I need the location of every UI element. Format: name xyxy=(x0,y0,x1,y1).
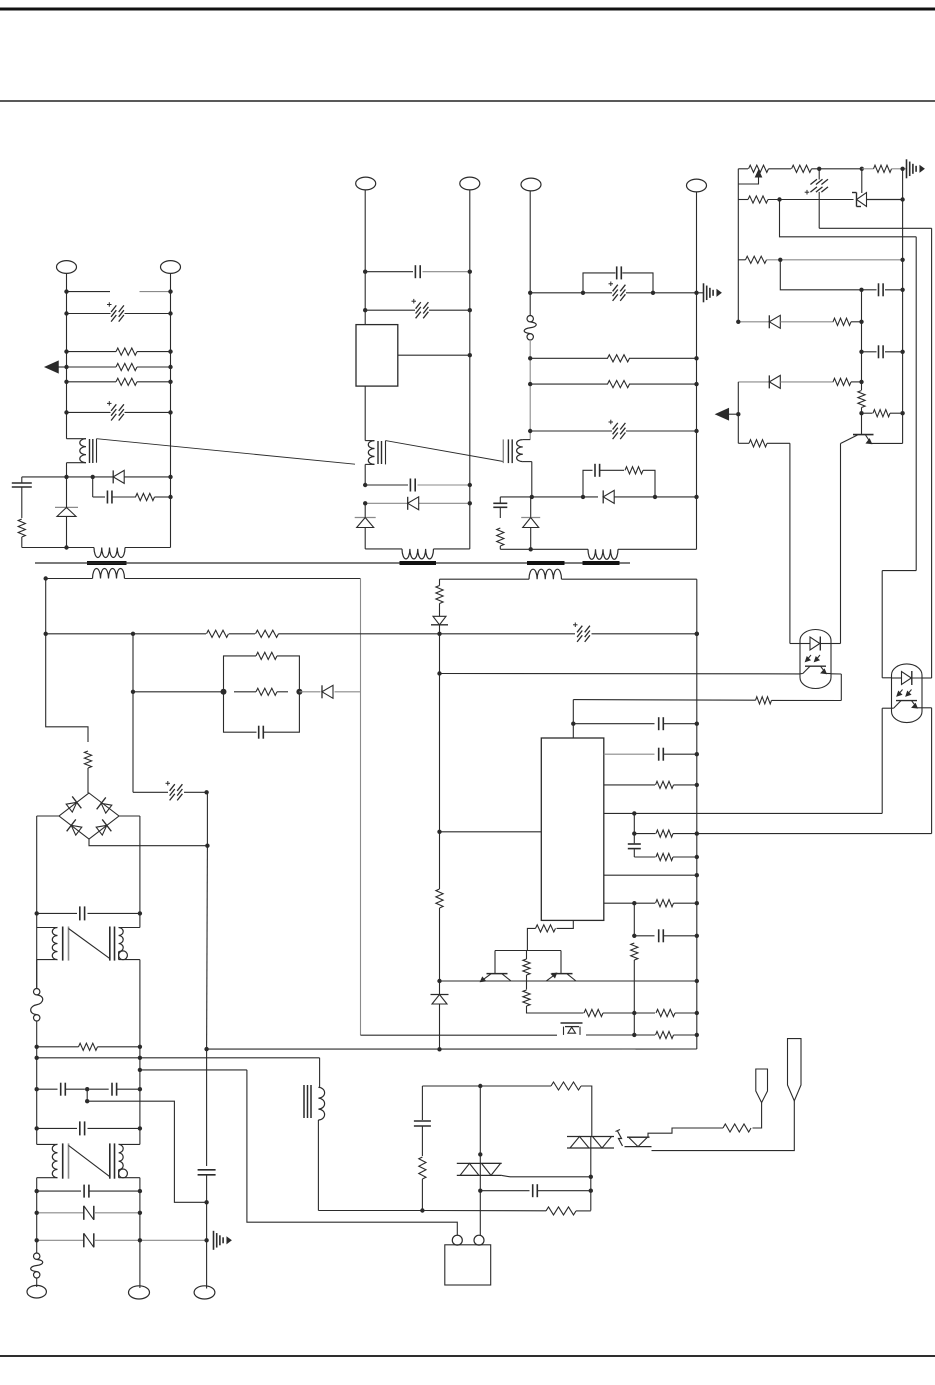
wire left vertical B xyxy=(132,634,134,692)
surge arrester SG1 xyxy=(563,1027,565,1035)
wire opto2 emitter xyxy=(882,707,894,709)
core coupling line T2 xyxy=(386,441,504,462)
capacitor C8 (electrolytic) xyxy=(530,292,612,294)
wire opto1 emitter corner xyxy=(840,674,842,701)
ground (mains) xyxy=(213,1231,215,1250)
capacitor C21 xyxy=(90,1088,109,1090)
wire block1 bottom node xyxy=(22,476,113,478)
resistor R26 xyxy=(604,784,655,786)
IC U1 (regulator box) xyxy=(356,325,398,387)
wire to bridge xyxy=(87,768,89,793)
wire DC bus xyxy=(206,792,208,845)
IC U4 (control IC) xyxy=(541,738,604,920)
resistor R3 xyxy=(67,381,117,383)
diode D7 xyxy=(738,321,769,323)
transformer T4 core bar xyxy=(527,561,565,565)
arrow to sheet (left) xyxy=(45,361,58,373)
capacitor C15 xyxy=(861,322,863,352)
arrow to sheet (right) xyxy=(716,409,729,420)
parallel R/C group node xyxy=(133,691,224,693)
resistor R30 (vertical) xyxy=(631,943,638,960)
capacitor C14 xyxy=(862,289,877,291)
triac TR1 xyxy=(457,1162,502,1164)
capacitor C13 (electrolytic horizontal) xyxy=(818,169,820,180)
diode D3 xyxy=(365,502,408,504)
wire block2 left rail xyxy=(364,272,366,325)
resistor R39 xyxy=(480,1085,551,1087)
resistor R31 (vertical) xyxy=(436,586,443,604)
resistor R13 xyxy=(738,259,745,261)
wire bus to DC bus xyxy=(207,1048,697,1050)
wire to opto2 anode xyxy=(881,571,883,678)
wire TR1 through xyxy=(479,1163,481,1190)
wire opto2 collector xyxy=(917,707,932,709)
trimmer resistor VR1 xyxy=(738,168,748,170)
common-mode choke T6 xyxy=(37,1143,58,1145)
wire U4 left pin xyxy=(440,831,542,833)
wire block2 right rail xyxy=(469,272,471,504)
resistor R27 xyxy=(633,813,635,833)
wire divider vertical xyxy=(633,960,635,1035)
transformer T3 core bar xyxy=(583,561,620,565)
transformer T3 bottom winding xyxy=(588,549,618,559)
jumper J1 (broken rung) xyxy=(67,291,111,293)
wire block4 right rail xyxy=(902,169,904,444)
wire U4 bottom pin xyxy=(557,920,574,928)
wire block4 left rail upper xyxy=(737,169,739,322)
fuse F1 (thermal) xyxy=(527,316,533,322)
wire mains left rail xyxy=(36,816,38,989)
wire aux primary bottom xyxy=(317,1120,319,1211)
module pin 2 xyxy=(474,1235,484,1245)
triac TR2 xyxy=(567,1136,614,1138)
wire driver rail xyxy=(495,950,561,952)
wire block1 bottom rail xyxy=(22,547,94,549)
transformer T1 bottom winding xyxy=(94,548,125,558)
wire left branch lower xyxy=(21,537,23,548)
diode D11 (vertical) xyxy=(439,981,441,995)
terminal L xyxy=(36,1278,38,1287)
capacitor C26 (X-cap) xyxy=(198,1169,216,1171)
module pin 1 xyxy=(452,1235,462,1245)
bridge diode bottom-right xyxy=(95,819,112,837)
wire block2 rail below U1 xyxy=(364,386,366,441)
resistor R9 (vertical) xyxy=(497,528,504,546)
ground (block3) xyxy=(697,292,704,294)
diode D6 (vertical) xyxy=(530,497,532,518)
transformer T3 primary winding xyxy=(523,439,530,441)
terminal N xyxy=(139,1240,141,1288)
wire line node xyxy=(37,1057,320,1059)
wire block3 mid node xyxy=(500,496,598,498)
wire feedback A xyxy=(780,200,917,237)
wire R9 to bottom xyxy=(499,546,501,549)
resistor R6 xyxy=(530,357,608,359)
wire TR2 vertical xyxy=(590,1137,592,1211)
diode D5 xyxy=(602,490,604,503)
transformer T2 core xyxy=(377,441,379,464)
resistor R21 (vertical) xyxy=(84,751,91,768)
capacitor C22 xyxy=(37,1127,77,1129)
terminal CN3-1 xyxy=(521,178,541,191)
wire U1 output xyxy=(398,354,470,356)
wire gate net vertical xyxy=(479,1086,481,1163)
wire block1 right rail xyxy=(170,292,172,497)
capacitor C23 xyxy=(37,1190,81,1192)
resistor R18 xyxy=(738,442,749,444)
resistor R16 (vertical) xyxy=(861,352,863,390)
bridge diode bottom-left xyxy=(67,819,84,837)
capacitor C16 (electrolytic) xyxy=(577,626,582,633)
wire block2 bottom xyxy=(365,548,402,550)
fuse F3 (thermal) xyxy=(34,1253,40,1259)
resistor R24 xyxy=(37,1046,79,1048)
optocoupler U2 light arrows xyxy=(806,655,811,661)
resistor R28 xyxy=(634,856,655,858)
resistor R14 xyxy=(833,318,851,325)
capacitor C12 (to ground) xyxy=(499,497,501,503)
terminal CN2-2 xyxy=(460,177,480,190)
wire mid vertical (snubber net) xyxy=(360,579,362,1036)
wire to opto1 anode xyxy=(789,443,791,643)
capacitor C24 (feedthrough) xyxy=(37,1212,84,1214)
diode D4 (vertical) xyxy=(364,503,366,517)
capacitor C17 (bottom of group) xyxy=(224,692,257,732)
resistor R40 (vertical) xyxy=(419,1157,426,1179)
wire TR1 lower xyxy=(479,1191,481,1236)
wire block4 node d xyxy=(861,290,863,322)
resistor R15 xyxy=(833,378,851,385)
fuse F2 (thermal) xyxy=(34,989,40,995)
ground (block4) xyxy=(906,159,908,178)
diode D8 xyxy=(738,381,769,383)
terminal CN1-1 xyxy=(57,261,77,274)
wire mains right rail xyxy=(139,816,141,928)
optocoupler U3 body xyxy=(892,664,923,723)
resistor R25 xyxy=(572,699,574,701)
wire opto1 collector line xyxy=(440,673,801,675)
resistor R36 xyxy=(584,1009,603,1016)
wire driver emitter line xyxy=(440,980,697,982)
transistor Q1 xyxy=(861,413,863,434)
resistor R32 (vertical) xyxy=(439,832,441,889)
wire bridge right corner xyxy=(119,815,140,817)
wire mains rails 3 xyxy=(139,1089,141,1144)
resistor R22 (top of group) xyxy=(224,656,257,692)
wire snubber top rail 2 xyxy=(586,1034,634,1036)
transformer T2 bottom winding xyxy=(402,549,434,559)
capacitor C20 xyxy=(37,1088,58,1090)
wire bridge bottom xyxy=(89,839,207,846)
header divider rule xyxy=(0,100,935,102)
capacitor C25 (feedthrough) xyxy=(37,1239,84,1241)
wire neutral to module xyxy=(247,1070,457,1236)
capacitor C7 xyxy=(365,484,408,486)
capacitor C5 xyxy=(365,271,413,273)
resistor R20 xyxy=(229,633,255,635)
optocoupler U2 body xyxy=(800,630,831,689)
wire block3 right rail xyxy=(696,293,698,497)
resistor R35 (vertical) xyxy=(523,990,530,1006)
resistor R17 xyxy=(862,412,873,414)
common-mode choke T5 xyxy=(37,927,58,929)
bridge diode top-left xyxy=(65,796,82,814)
bottom page rule xyxy=(0,1355,935,1357)
capacitor C6 (electrolytic) xyxy=(365,309,415,311)
capacitor C31 (snubber) xyxy=(421,1086,423,1120)
diode D9 xyxy=(299,691,320,693)
resistor R41 xyxy=(318,1210,422,1212)
capacitor C30 xyxy=(633,903,635,936)
transformer T1 core bar xyxy=(87,561,127,565)
wire left vertical B lower xyxy=(132,692,134,793)
resistor R4 (vertical) xyxy=(18,519,25,537)
transistor Q3 xyxy=(552,973,573,975)
capacitor C10 (electrolytic) xyxy=(530,430,612,432)
wire block3 bottom xyxy=(500,548,588,550)
optocoupler U2 transistor xyxy=(805,665,826,667)
transformer T1 primary winding xyxy=(67,438,87,440)
zener diode ZD1 stub xyxy=(861,169,863,193)
wire block3 left rail upper xyxy=(529,293,531,316)
bridge diode top-right xyxy=(97,797,114,815)
resistor R7 xyxy=(530,383,608,385)
wire aux primary top xyxy=(319,1058,321,1088)
capacitor C1 (electrolytic) xyxy=(67,313,111,315)
capacitor C18 (electrolytic) xyxy=(133,791,168,793)
probe P1 xyxy=(756,1069,768,1103)
transistor Q2 xyxy=(487,973,508,975)
wire mains rails 2 xyxy=(36,960,38,989)
wire right bus xyxy=(696,579,698,1049)
wire probe1 path xyxy=(753,1103,762,1128)
core coupling line T1 xyxy=(97,439,356,465)
wire block4 node c xyxy=(780,260,861,290)
resistor R2 xyxy=(67,366,117,368)
capacitor C11 / resistor R8 snubber xyxy=(583,470,593,497)
terminal CN2-1 xyxy=(356,177,376,190)
optocoupler U2 LED xyxy=(800,643,810,645)
terminal PE xyxy=(206,1240,208,1288)
capacitor C29 (on divider) xyxy=(633,834,635,844)
transformer T7 winding xyxy=(318,1087,324,1120)
wire block3 left rail mid xyxy=(529,340,531,440)
wire Y-cap midpoint xyxy=(87,1089,206,1202)
capacitor C3 xyxy=(21,477,23,483)
zener diode ZD1 xyxy=(857,193,867,207)
probe P2 xyxy=(788,1039,802,1101)
diode D10 (vertical) xyxy=(439,604,441,617)
power entry module X1 xyxy=(445,1245,491,1285)
capacitor C32 xyxy=(480,1190,529,1192)
diode D2 (to rail) xyxy=(55,506,78,508)
resistor R19 xyxy=(46,633,206,635)
resistor R12 xyxy=(738,199,748,201)
capacitor C4 / resistor R5 snubber xyxy=(92,477,94,497)
wire snubber top rail xyxy=(361,1034,558,1036)
optocoupler U3 light arrows xyxy=(898,690,903,696)
wire U4 top pin xyxy=(572,700,574,738)
optocoupler U3 transistor xyxy=(896,700,917,702)
wire left vertical A lower xyxy=(46,634,88,742)
wire Q1 collector xyxy=(871,442,903,444)
wire bridge left corner xyxy=(37,815,59,817)
wire opto1 emitter out xyxy=(800,673,803,675)
terminal CN3-2 xyxy=(687,179,707,192)
transformer T1 secondary winding xyxy=(46,578,93,580)
wire probe2 path xyxy=(652,1101,795,1151)
diac TR3 xyxy=(627,1136,650,1138)
terminal CN1-2 xyxy=(161,261,181,274)
resistor R1 xyxy=(67,351,117,353)
wire feedback A vertical xyxy=(915,237,917,571)
resistor R23 (mid of group) xyxy=(256,688,277,695)
resistor R37 xyxy=(656,1009,675,1016)
resistor R33 xyxy=(536,925,556,932)
resistor R38 xyxy=(634,1034,655,1036)
wire opto2 collector run xyxy=(697,833,932,835)
wire snubber net top xyxy=(422,1085,480,1087)
wire to opto1 cathode xyxy=(840,444,842,644)
resistor R34 (vertical) xyxy=(523,959,530,975)
wire neutral node xyxy=(140,1069,247,1071)
capacitor C2 (electrolytic) xyxy=(67,411,111,413)
wire block4 left rail lower xyxy=(737,382,739,443)
capacitor C9 (bypass loop) xyxy=(583,273,616,293)
resistor R29 xyxy=(604,902,635,904)
top page rule xyxy=(0,8,935,11)
wire sense vertical xyxy=(439,579,441,585)
diode D1 xyxy=(112,470,114,483)
resistor R11 xyxy=(862,168,874,170)
resistor R10 xyxy=(769,168,792,170)
transformer T2 core bar xyxy=(400,561,437,565)
wire mains rails 4 xyxy=(36,1178,38,1253)
diac TR3 gate squiggle xyxy=(618,1131,623,1146)
capacitor C19 xyxy=(37,912,77,914)
optocoupler U3 LED xyxy=(892,677,902,679)
transformer T4 secondary winding xyxy=(440,578,530,580)
transformer T2 primary winding xyxy=(365,440,374,442)
bridge rectifier BR1 diamond xyxy=(59,793,119,839)
transformer core line xyxy=(35,562,630,564)
wire feedback B vertical xyxy=(931,228,933,678)
capacitor C27 xyxy=(573,723,654,725)
wire TR1-TR2 link xyxy=(502,1175,510,1176)
wire U4 pin6 xyxy=(604,874,697,876)
wire feedback B xyxy=(819,227,931,229)
transformer T1 core xyxy=(89,439,91,463)
capacitor C28 xyxy=(604,753,655,755)
wire block1 left rail xyxy=(66,292,68,439)
transformer T7 core xyxy=(303,1085,305,1118)
transformer T3 core xyxy=(502,439,504,463)
resistor R42 xyxy=(723,1124,751,1132)
wire sense vertical 2 xyxy=(439,634,441,832)
wire mains left rail 3 xyxy=(36,1021,38,1144)
wire U4 feedback pin xyxy=(604,812,882,814)
wire left vertical A xyxy=(45,579,47,634)
